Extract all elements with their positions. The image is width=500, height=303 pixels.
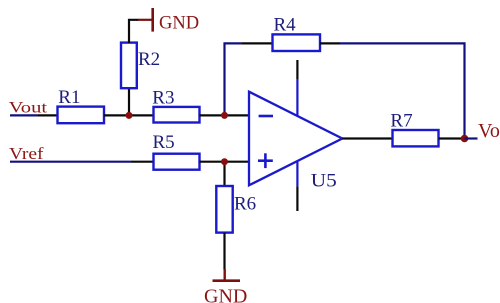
wire feedback top run and right vertical down to output node (navy) bbox=[340, 43, 465, 138]
svg-text:R7: R7 bbox=[390, 111, 412, 132]
node B junction dot (R3/feedback/inverting input) bbox=[221, 112, 228, 119]
svg-text:Vo: Vo bbox=[478, 120, 500, 142]
svg-text:R2: R2 bbox=[138, 49, 160, 70]
svg-text:Vref: Vref bbox=[9, 144, 44, 163]
wire R2 bottom pin (black) bbox=[128, 88, 130, 115]
svg-text:U5: U5 bbox=[311, 171, 337, 192]
wire Vout net horizontal (navy) bbox=[10, 114, 38, 116]
wire Vref net horizontal (navy) bbox=[10, 161, 131, 163]
svg-text:R3: R3 bbox=[152, 88, 174, 109]
wire R5 to non-inverting input pin (black) bbox=[200, 161, 250, 163]
wire Vo stub (navy) bbox=[465, 137, 478, 139]
resistor R4 bbox=[273, 34, 321, 51]
ground symbol top bbox=[138, 19, 153, 21]
svg-text:GND: GND bbox=[204, 286, 247, 303]
op-amp top power pin (black outer) bbox=[296, 60, 298, 79]
wire R5 left pin (black) bbox=[131, 161, 154, 163]
wire R4 right pin (black) bbox=[320, 42, 340, 44]
wire R1 to node A (black) bbox=[104, 114, 154, 116]
node A junction dot (R1/R2/R3) bbox=[126, 112, 133, 119]
svg-text:R1: R1 bbox=[58, 87, 80, 108]
wire Vout to R1 pin (black) bbox=[38, 114, 58, 116]
resistor R1 bbox=[58, 107, 105, 124]
wire op-amp output pin to R7 (black) bbox=[342, 137, 392, 139]
op-amp bottom power pin (black outer) bbox=[296, 186, 298, 211]
wire R3 to inverting input pin (black) bbox=[200, 114, 250, 116]
resistor R2 bbox=[121, 43, 137, 89]
wire R7 right pin (black) bbox=[439, 137, 465, 139]
svg-text:R4: R4 bbox=[274, 15, 297, 36]
wire R6 bottom pin (black) bbox=[223, 233, 225, 270]
op-amp top power pin (blue inner) bbox=[296, 79, 298, 116]
svg-text:R6: R6 bbox=[234, 194, 256, 215]
resistor R6 bbox=[216, 186, 232, 233]
op-amp U5 triangle bbox=[249, 92, 342, 186]
node C junction dot (R5/R6/non-inverting input) bbox=[221, 158, 228, 165]
wire feedback vertical from node B up to top run (navy) bbox=[225, 43, 243, 115]
wire R4 left pin (black) bbox=[242, 42, 273, 44]
resistor R3 bbox=[154, 107, 200, 123]
op-amp bottom power pin (blue inner) bbox=[296, 161, 298, 186]
wire R6 top pin (black) bbox=[223, 162, 225, 187]
node D output junction dot (R4/R7/Vo) bbox=[461, 135, 469, 143]
svg-text:Vout: Vout bbox=[9, 100, 48, 117]
resistor R7 bbox=[393, 130, 439, 146]
svg-text:GND: GND bbox=[159, 14, 199, 34]
svg-text:R5: R5 bbox=[153, 132, 175, 153]
wire R2 top pin up and over to GND (black) bbox=[129, 20, 139, 43]
ground symbol bottom bbox=[223, 269, 225, 281]
op-amp U5 minus sign bbox=[259, 115, 273, 118]
resistor R5 bbox=[154, 154, 200, 170]
op-amp U5 plus sign bbox=[258, 159, 273, 162]
